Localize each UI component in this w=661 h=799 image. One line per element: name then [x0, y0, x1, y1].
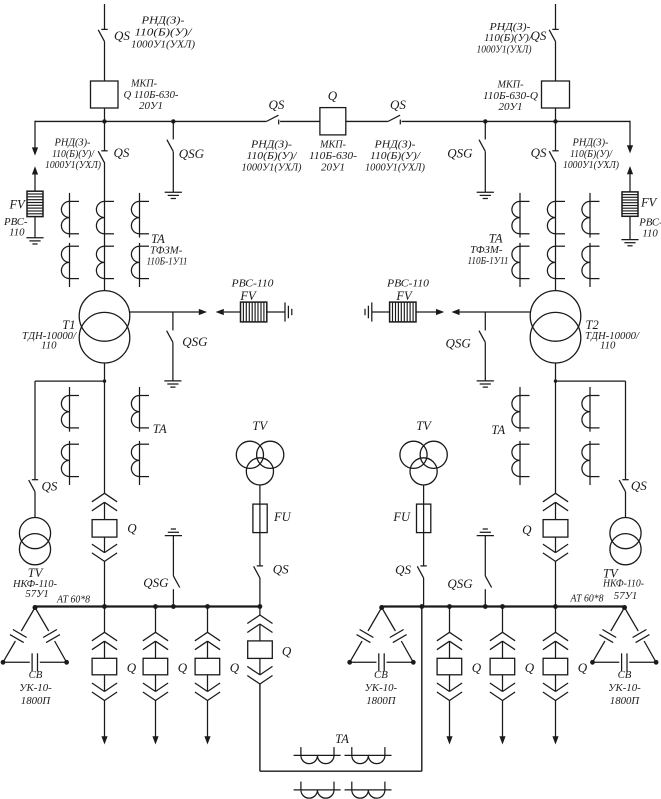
- svg-text:НКФ-110-: НКФ-110-: [602, 578, 644, 590]
- capacitor C (edge 2): [43, 630, 60, 643]
- withdrawable breaker chevron 3: [543, 683, 568, 692]
- svg-text:QSG: QSG: [447, 146, 473, 161]
- disconnector QS (TV1 branch): [29, 480, 39, 492]
- svg-text:РВС-110: РВС-110: [386, 277, 430, 289]
- svg-text:УК-10-: УК-10-: [19, 682, 52, 694]
- svg-text:ТА: ТА: [153, 422, 167, 436]
- wire incoming line 2 (top): [555, 4, 557, 29]
- svg-text:АТ 60*8: АТ 60*8: [56, 593, 90, 605]
- svg-text:МКП-: МКП-: [130, 77, 157, 89]
- withdrawable breaker Q (feeder 2): [143, 658, 168, 675]
- grounding switch QSG (bus left): [167, 140, 173, 152]
- bus 110kV segment A: [35, 120, 266, 122]
- label МКП- Q 110Б-630- 20У1: [124, 77, 179, 112]
- label Т1 ТДН-10000/110: [22, 318, 77, 352]
- svg-text:1000У1(УХЛ): 1000У1(УХЛ): [477, 44, 532, 56]
- withdrawable breaker chevron 4: [543, 692, 568, 701]
- withdrawable breaker Q box (T2 LV): [543, 520, 568, 538]
- svg-text:Q: Q: [127, 520, 137, 535]
- svg-text:1000У1(УХЛ): 1000У1(УХЛ): [563, 160, 620, 171]
- voltage transformer TV (10kV left) winding 3: [246, 458, 273, 485]
- svg-text:Q: Q: [282, 643, 292, 658]
- disconnector QS (incoming 2): [549, 29, 559, 41]
- feeder 3 wire (section 1): [207, 607, 209, 633]
- node capacitor bank apex: [33, 605, 38, 610]
- withdrawable breaker chevron 4: [195, 692, 220, 701]
- withdrawable breaker chevron 2: [490, 641, 515, 650]
- wire: [555, 537, 557, 553]
- svg-text:FV: FV: [239, 289, 257, 303]
- capacitor C (bottom): [622, 653, 627, 671]
- wire: [484, 536, 486, 576]
- node T junction: [103, 379, 106, 382]
- capacitor bank СВ УК-10-1800П (left) edge 1: [3, 608, 35, 663]
- svg-text:110: 110: [9, 226, 25, 238]
- voltage transformer TV (10kV right) winding 3: [410, 458, 437, 485]
- capacitor C (edge 2): [633, 630, 650, 643]
- svg-text:РВС-: РВС-: [638, 216, 661, 228]
- arrow feeder out: [446, 736, 452, 744]
- svg-text:СВ: СВ: [29, 669, 43, 681]
- wire T1 feeder: [104, 162, 106, 290]
- disconnector QS (incoming 1): [98, 29, 108, 41]
- wire: [104, 121, 106, 150]
- withdrawable breaker Q (feeder 1): [92, 658, 117, 675]
- node: [590, 660, 595, 665]
- svg-text:110(Б)(У)/: 110(Б)(У)/: [135, 26, 193, 38]
- capacitor C (edge 1): [357, 630, 374, 643]
- svg-text:FV: FV: [640, 196, 658, 210]
- arrow left (arrester lead): [216, 309, 224, 315]
- wire: [555, 108, 557, 121]
- tie breaker wire: [259, 607, 261, 616]
- capacitor C (edge 1): [599, 630, 616, 643]
- arrow feeder out: [552, 736, 558, 744]
- svg-text:110Б-1У11: 110Б-1У11: [468, 255, 509, 267]
- label МКП- 110Б-630-Q 20У1: [483, 78, 538, 113]
- ground (T2 neutral QSG): [477, 381, 494, 387]
- node capacitor bank apex: [379, 605, 384, 610]
- current transformer TA winding 2 (LV col1 right): [512, 441, 530, 485]
- surge arrester FV РВС-110 (middle right): [390, 302, 416, 322]
- surge arrester FV РВС-110 (middle left): [241, 302, 267, 322]
- grounding switch QSG (T2 neutral): [479, 331, 485, 343]
- svg-text:QSG: QSG: [182, 334, 208, 349]
- wire: [224, 311, 241, 313]
- wire: [372, 311, 390, 313]
- wire: [484, 589, 486, 606]
- withdrawable breaker chevron 4: [92, 692, 117, 701]
- label type РНД(З)-110(Б)(У)/1000У1(УХЛ): [563, 138, 620, 171]
- label СВ УК-10-1800П: [365, 669, 398, 707]
- ground inverted (section 1 QSG): [165, 529, 182, 536]
- transformer T1 winding 2: [79, 312, 130, 363]
- svg-text:Q: Q: [522, 522, 532, 537]
- current transformer TA winding 2 (col1 right): [512, 243, 530, 287]
- wire T2 feeder: [555, 162, 557, 290]
- ground rotated (middle right): [365, 302, 372, 321]
- withdrawable breaker Q (T1 LV) chevron 1: [92, 493, 117, 502]
- svg-text:110: 110: [600, 339, 616, 351]
- withdrawable breaker chevron 4: [92, 553, 117, 562]
- withdrawable breaker chevron 2: [195, 641, 220, 650]
- feeder 2 wire (section 1): [155, 607, 157, 633]
- wire: [104, 41, 106, 81]
- arrow down (line end): [627, 145, 633, 153]
- bus 10kV section 2: [382, 605, 625, 607]
- wire T2 secondary: [555, 363, 557, 493]
- svg-text:1000У1(УХЛ): 1000У1(УХЛ): [242, 162, 302, 174]
- surge arrester FV РВС-110 (right): [622, 192, 638, 216]
- current transformer TA (tie row1 group2): [345, 747, 392, 764]
- node: [64, 660, 69, 665]
- current transformer TA winding 2 (col3): [131, 243, 149, 287]
- arrow feeder out: [204, 736, 210, 744]
- withdrawable breaker chevron 3: [143, 683, 168, 692]
- capacitor C (bottom): [32, 653, 37, 671]
- label ТV НКФ-110-57У1: [602, 566, 644, 601]
- withdrawable breaker chevron 1: [543, 632, 568, 641]
- bus 10kV section 1: [35, 605, 260, 607]
- bus 110kV segment B: [280, 120, 320, 122]
- bus 110kV segment D: [402, 120, 630, 122]
- wire QSG2 drop: [484, 121, 486, 139]
- svg-text:МКП-: МКП-: [319, 139, 346, 151]
- svg-text:СВ: СВ: [618, 669, 632, 681]
- voltage transformer TV (right) winding 2: [610, 534, 641, 565]
- arrow feeder out: [499, 736, 505, 744]
- current transformer TA winding 1 (LV col1 right): [512, 387, 530, 432]
- svg-text:QS: QS: [42, 479, 58, 494]
- withdrawable breaker chevron 4: [143, 692, 168, 701]
- withdrawable breaker chevron 1: [437, 632, 462, 641]
- label TV НКФ-110-57У1: [12, 566, 57, 600]
- node: [347, 660, 352, 665]
- label type РНД(З)-110(Б)(У)/1000У1(УХЛ) left of tie: [242, 139, 302, 174]
- node junction incoming1/bus: [102, 119, 106, 123]
- svg-text:1000У1(УХЛ): 1000У1(УХЛ): [45, 160, 102, 171]
- svg-text:FU: FU: [273, 510, 292, 524]
- node: [205, 604, 210, 609]
- withdrawable breaker chevron 1: [92, 632, 117, 641]
- withdrawable breaker chevron 3: [92, 683, 117, 692]
- current transformer TA winding 2 (col3 right): [582, 243, 600, 287]
- wire: [155, 675, 157, 692]
- svg-text:110Б-1У11: 110Б-1У11: [147, 255, 188, 267]
- svg-text:Q: Q: [178, 660, 188, 675]
- node: [171, 604, 176, 609]
- withdrawable breaker chevron 4: [490, 692, 515, 701]
- svg-text:QS: QS: [531, 145, 547, 160]
- svg-text:РВС-110: РВС-110: [230, 277, 274, 289]
- withdrawable breaker chevron 4: [543, 553, 568, 562]
- svg-text:110(Б)(У)/: 110(Б)(У)/: [52, 149, 95, 160]
- circuit breaker Q (МКП-110Б-630-20У1) left: [91, 81, 119, 108]
- current transformer TA winding 2 (LV col1): [61, 441, 79, 485]
- label ТА ТФЗМ-110Б-1У11: [468, 231, 509, 267]
- svg-text:TV: TV: [416, 419, 432, 433]
- arrow feeder out: [101, 736, 107, 744]
- svg-text:110(Б)(У)/: 110(Б)(У)/: [484, 32, 533, 44]
- wire bus right end down: [629, 121, 631, 147]
- arrow up (arrester lead): [32, 166, 38, 174]
- node: [153, 604, 158, 609]
- voltage transformer TV (left) winding 2: [19, 534, 50, 565]
- svg-text:РНД(З)-: РНД(З)-: [373, 139, 416, 151]
- svg-text:FV: FV: [9, 197, 27, 211]
- current transformer TA (tie row2 group1): [294, 782, 341, 799]
- disconnector QS (bus tie, right): [388, 115, 400, 124]
- svg-text:QS: QS: [390, 97, 406, 112]
- disconnector QS (TV2 branch): [619, 480, 629, 492]
- wire: [416, 311, 437, 313]
- wire: [34, 174, 36, 192]
- wire: [172, 536, 174, 576]
- withdrawable breaker chevron 3: [92, 544, 117, 553]
- wire tie up to section 2: [421, 607, 423, 772]
- disconnector QS (T2 feeder): [549, 151, 559, 163]
- withdrawable breaker chevron 2: [437, 641, 462, 650]
- capacitor bank edge 2: [35, 608, 67, 663]
- svg-text:QS: QS: [631, 478, 647, 493]
- arrow right (T1 line end): [199, 309, 207, 315]
- label type РНД(З)-110(Б)(У)/1000У1(УХЛ): [477, 21, 534, 56]
- wire: [629, 173, 631, 192]
- feeder 4 wire (section 2): [449, 607, 451, 633]
- ground (QSG bus right): [477, 192, 494, 198]
- wire QSG1 drop: [172, 121, 174, 139]
- node: [258, 604, 263, 609]
- svg-text:ТА: ТА: [491, 423, 505, 437]
- node junction QSG1/bus: [171, 119, 175, 123]
- node: [447, 604, 452, 609]
- wire: [104, 108, 106, 121]
- wire: [423, 485, 425, 504]
- current transformer TA winding 1 (main): [96, 201, 114, 233]
- label type РНД(З)-110(Б)(У)/1000У1(УХЛ) right of tie: [365, 139, 425, 174]
- svg-text:УК-10-: УК-10-: [608, 682, 641, 694]
- svg-text:РНД(З)-: РНД(З)-: [140, 14, 185, 26]
- svg-text:110(Б)(У)/: 110(Б)(У)/: [247, 150, 298, 162]
- ground (QSG bus left): [165, 192, 182, 198]
- withdrawable breaker Q (feeder 4): [437, 658, 462, 675]
- wire incoming line 1 (top): [104, 4, 106, 29]
- capacitor C (edge 1): [10, 630, 27, 643]
- withdrawable breaker Q box (T1 LV): [92, 520, 117, 538]
- fuse FU (left): [253, 504, 267, 532]
- withdrawable breaker chevron 1: [143, 632, 168, 641]
- capacitor C (bottom): [379, 653, 384, 671]
- current transformer TA winding 2 (col1): [61, 243, 79, 287]
- current transformer TA winding 2 (main): [96, 246, 114, 278]
- wire: [555, 675, 557, 692]
- svg-text:1000У1(УХЛ): 1000У1(УХЛ): [131, 38, 195, 50]
- wire: [207, 675, 209, 692]
- svg-text:QSG: QSG: [143, 575, 169, 590]
- wire: [460, 311, 531, 313]
- wire: [484, 342, 486, 381]
- voltage transformer TV НКФ-110-57У1 (right) winding 1: [610, 518, 641, 549]
- withdrawable breaker chevron 3: [437, 683, 462, 692]
- grounding switch QSG (section 1): [173, 576, 179, 588]
- transformer T1 ТДН-10000/110 winding 1: [79, 291, 130, 342]
- svg-text:110: 110: [41, 339, 57, 351]
- voltage transformer TV (10kV left) winding 1: [236, 441, 263, 468]
- feeder 5 wire (section 2): [502, 607, 504, 633]
- arrow up (arrester lead): [627, 166, 633, 174]
- svg-text:Q 110Б-630-: Q 110Б-630-: [124, 89, 179, 101]
- wire: [484, 152, 486, 193]
- ground rotated (middle left): [285, 302, 292, 321]
- svg-text:QS: QS: [114, 145, 130, 160]
- svg-text:110(Б)(У)/: 110(Б)(У)/: [570, 149, 613, 160]
- svg-text:АТ 60*8: АТ 60*8: [570, 593, 604, 605]
- svg-text:РНД(З)-: РНД(З)-: [488, 21, 531, 33]
- transformer T2 ТДН-10000/110 winding 1: [530, 291, 581, 342]
- svg-text:20У1: 20У1: [499, 101, 523, 113]
- label Т2 ТДН-10000/110: [585, 318, 640, 352]
- svg-text:QS: QS: [273, 561, 289, 576]
- node: [102, 604, 107, 609]
- current transformer TA winding 2 (main right): [547, 246, 565, 278]
- wire: [172, 152, 174, 193]
- withdrawable breaker chevron 2: [143, 641, 168, 650]
- svg-text:QS: QS: [531, 28, 547, 43]
- svg-text:Q: Q: [328, 88, 338, 103]
- node: [500, 604, 505, 609]
- node T junction: [554, 379, 557, 382]
- grounding switch QSG (T1 neutral): [167, 331, 173, 343]
- node: [553, 604, 558, 609]
- capacitor bank edge 2: [625, 608, 657, 663]
- current transformer TA winding 1 (col1 right): [512, 193, 530, 238]
- voltage transformer TV (10kV right) winding 1: [400, 441, 427, 468]
- voltage transformer TV (10kV right) winding 2: [420, 441, 447, 468]
- svg-text:Q: Q: [230, 660, 240, 675]
- svg-text:РНД(З)-: РНД(З)-: [250, 139, 293, 151]
- withdrawable breaker chevron 4: [437, 692, 462, 701]
- arrow feeder out: [152, 736, 158, 744]
- svg-text:110Б-630-: 110Б-630-: [309, 150, 357, 162]
- disconnector QS (TV 10kV left): [254, 566, 264, 578]
- current transformer TA winding 1 (col3): [131, 193, 149, 238]
- wire: [449, 675, 451, 692]
- svg-text:57У1: 57У1: [614, 590, 637, 602]
- grounding switch QSG (T1 neutral) wire: [172, 312, 174, 330]
- svg-text:Q: Q: [127, 660, 137, 675]
- capacitor bank bottom edge: [593, 661, 657, 663]
- wire: [423, 533, 425, 566]
- wire: [259, 485, 261, 504]
- current transformer TA (tie row1 group1): [294, 747, 341, 764]
- svg-text:1800П: 1800П: [21, 695, 52, 707]
- wire: [629, 216, 631, 239]
- svg-text:Q: Q: [525, 660, 535, 675]
- disconnector QS (bus tie, left): [266, 115, 278, 124]
- label ТА ТФЗМ-110Б-1У11: [147, 232, 188, 268]
- label СВ УК-10-1800П: [608, 669, 641, 707]
- grounding switch QSG (bus right): [479, 140, 485, 152]
- withdrawable breaker chevron 3: [490, 683, 515, 692]
- node: [419, 604, 424, 609]
- label type РНД(З)-110(Б)(У)/1000У1(УХЛ): [45, 138, 102, 171]
- voltage transformer TV (10kV left) winding 2: [257, 441, 284, 468]
- svg-text:1800П: 1800П: [366, 695, 397, 707]
- current transformer TA winding 1 (main right): [547, 201, 565, 233]
- wire: [267, 311, 285, 313]
- label МКП-110Б-630-20У1: [309, 139, 357, 174]
- wire: [172, 589, 174, 606]
- capacitor bank edge 2: [382, 608, 414, 663]
- wire branch to voltage transformer TV1: [35, 380, 105, 382]
- withdrawable breaker chevron 3: [543, 544, 568, 553]
- withdrawable breaker chevron 4 (tie): [247, 676, 272, 685]
- svg-text:110(Б)(У)/: 110(Б)(У)/: [370, 150, 421, 162]
- wire: [34, 217, 36, 238]
- current transformer TA winding 1 (LV col2 right): [582, 387, 600, 432]
- withdrawable breaker Q (feeder 3): [195, 658, 220, 675]
- svg-text:Q: Q: [578, 660, 588, 675]
- withdrawable breaker Q (feeder 6): [543, 658, 568, 675]
- ground (T1 neutral QSG): [164, 381, 181, 387]
- current transformer TA (tie row2 group2): [345, 782, 392, 799]
- svg-text:РНД(З)-: РНД(З)-: [571, 138, 608, 149]
- svg-text:20У1: 20У1: [321, 162, 345, 174]
- svg-text:QSG: QSG: [447, 576, 473, 591]
- svg-text:20У1: 20У1: [139, 100, 163, 112]
- node: [654, 660, 659, 665]
- withdrawable breaker Q (T2 LV) chevron 1: [543, 493, 568, 502]
- grounding switch QSG (T2 neutral) wire: [484, 312, 486, 330]
- current transformer TA winding 2 (LV col2 right): [582, 441, 600, 485]
- wire branch to voltage transformer TV2: [556, 380, 626, 382]
- capacitor bank bottom edge: [3, 661, 67, 663]
- withdrawable breaker chevron 1 (tie): [247, 615, 272, 624]
- capacitor bank bottom edge: [350, 661, 414, 663]
- arrow left (T2 line end): [451, 309, 459, 315]
- svg-text:QS: QS: [395, 562, 411, 577]
- svg-text:УК-10-: УК-10-: [365, 682, 398, 694]
- svg-text:1000У1(УХЛ): 1000У1(УХЛ): [365, 162, 425, 174]
- capacitor bank СВ УК-10-1800П (right) edge 1: [593, 608, 625, 663]
- current transformer TA winding 1 (col3 right): [582, 193, 600, 238]
- svg-text:FU: FU: [392, 510, 411, 524]
- wire: [104, 675, 106, 692]
- wire: [259, 578, 261, 607]
- withdrawable breaker chevron 1: [490, 632, 515, 641]
- current transformer TA winding 1 (col1): [61, 193, 79, 238]
- current transformer TA winding 1 (LV col1): [61, 387, 79, 432]
- capacitor bank СВ УК-10-1800П (mid) edge 1: [350, 608, 382, 663]
- svg-text:QSG: QSG: [179, 146, 205, 161]
- node: [1, 660, 6, 665]
- svg-text:FV: FV: [395, 289, 413, 303]
- withdrawable breaker chevron 2: [92, 502, 117, 511]
- circuit breaker Q (bus tie МКП-110Б-630-20У1): [320, 108, 346, 135]
- svg-text:57У1: 57У1: [25, 588, 48, 600]
- withdrawable breaker Q (tie): [248, 641, 273, 659]
- wire: [34, 492, 36, 518]
- label СВ УК-10-1800П: [19, 669, 52, 707]
- disconnector QS (TV 10kV right): [417, 566, 427, 578]
- fuse FU (right): [417, 504, 431, 532]
- arrow down (line end): [32, 147, 38, 155]
- withdrawable breaker chevron 3 (tie): [247, 666, 272, 675]
- surge arrester FV РВС-110 (left): [27, 191, 43, 216]
- wire tie down: [259, 658, 261, 675]
- node junction incoming2/bus: [553, 119, 557, 123]
- svg-text:110Б-630-Q: 110Б-630-Q: [483, 90, 538, 102]
